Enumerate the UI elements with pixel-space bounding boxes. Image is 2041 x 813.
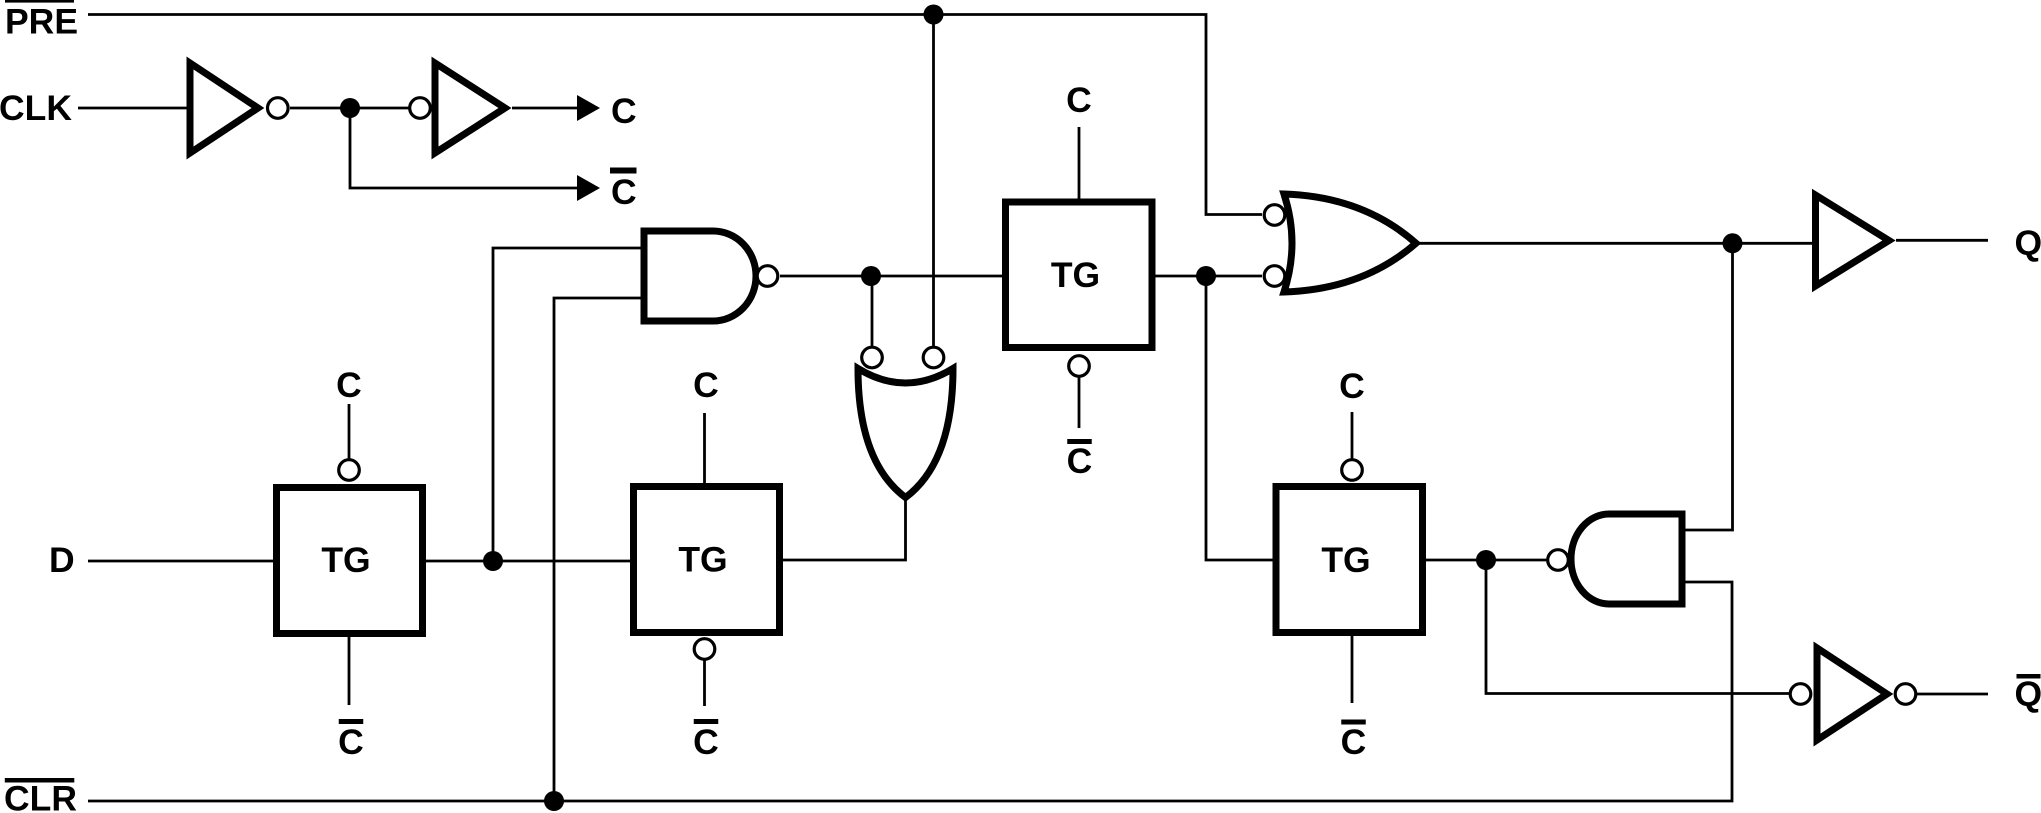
svg-text:C: C [611, 91, 637, 131]
svg-text:PRE: PRE [5, 2, 78, 42]
svg-text:C: C [1066, 80, 1092, 120]
svg-text:C: C [693, 365, 719, 405]
svg-text:CLK: CLK [0, 88, 72, 128]
svg-text:D: D [49, 540, 75, 580]
svg-text:CLR: CLR [4, 779, 77, 813]
svg-text:C: C [336, 365, 362, 405]
svg-text:TG: TG [1321, 540, 1370, 580]
svg-text:TG: TG [678, 540, 727, 580]
svg-text:TG: TG [1051, 255, 1100, 295]
svg-text:C: C [1339, 366, 1365, 406]
svg-text:Q: Q [2015, 223, 2041, 263]
svg-text:C: C [693, 722, 719, 762]
svg-text:TG: TG [321, 540, 370, 580]
svg-text:Q: Q [2015, 674, 2041, 714]
svg-text:C: C [1341, 722, 1367, 762]
svg-text:C: C [1067, 441, 1093, 481]
svg-text:C: C [611, 172, 637, 212]
svg-text:C: C [338, 722, 364, 762]
